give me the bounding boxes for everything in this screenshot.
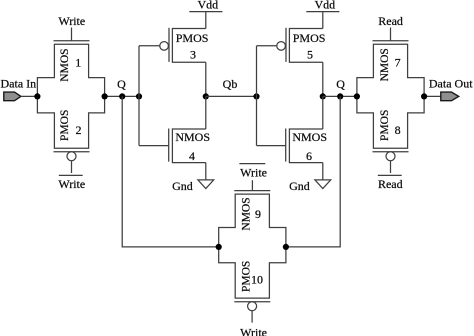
svg-text:Q: Q [117,77,126,91]
wire gate lead PMOS 10 [251,310,253,322]
svg-text:Write: Write [58,14,85,28]
junction dot node Q feedback tap [119,93,125,99]
wire NMOS 6 drain to node Q [322,96,324,129]
wire PMOS 3 source to Vdd [205,12,207,29]
svg-text:Read: Read [378,177,403,191]
junction dot read gate output [421,93,427,99]
transistor PMOS 10 gate bubble [248,302,257,311]
transistor NMOS 1 gate plate [54,40,90,42]
junction dot left gate output [102,93,108,99]
label Write-bar overline (feedback gate top) [239,163,265,165]
svg-text:4: 4 [189,149,195,163]
transistor PMOS 8 gate plate [373,151,409,153]
svg-text:Data Out: Data Out [429,77,473,91]
transistor PMOS 8 gate bubble [386,152,395,161]
svg-text:PMOS: PMOS [59,110,71,141]
wire gate lead PMOS 2 [71,161,73,174]
junction dot node Qb [203,93,209,99]
wire to PMOS 5 gate bubble [257,45,277,47]
transistor NMOS 6 gate line [285,129,287,162]
transistor PMOS 3 body [172,29,205,63]
svg-text:Vdd: Vdd [197,0,218,11]
svg-text:9: 9 [255,207,261,221]
power rail Vdd (inverter 1) [189,11,222,13]
transistor NMOS 9 gate plate [234,190,270,192]
transistor PMOS 2 gate plate [54,151,90,153]
wire gate lead NMOS 9 [251,180,253,190]
svg-text:Write: Write [240,326,267,336]
svg-text:PMOS: PMOS [176,31,209,45]
svg-text:7: 7 [395,56,401,70]
svg-text:6: 6 [306,149,312,163]
wire to NMOS 4 gate [139,145,169,147]
svg-text:Gnd: Gnd [289,179,310,193]
svg-text:NMOS: NMOS [292,130,327,144]
wire PMOS 5 source to Vdd [322,12,324,29]
svg-text:Q: Q [336,77,345,91]
svg-text:NMOS: NMOS [241,197,253,230]
wire node Q down to feedback gate right [286,96,340,247]
junction dot inverter 1 input [136,93,142,99]
svg-text:Read: Read [378,14,403,28]
transistor PMOS 10 gate plate [234,301,270,303]
ground symbol (inverter 2) [315,180,331,189]
transistor PMOS 3 gate bubble [160,42,169,51]
svg-text:PMOS: PMOS [293,31,326,45]
junction dot at Data In terminal [34,93,40,99]
junction dot feedback gate left [216,244,222,250]
power rail Vdd (inverter 2) [306,11,339,13]
wire read gate output to Data Out [424,95,441,97]
junction dot inverter 2 input [253,93,259,99]
transistor PMOS 5 body [289,29,322,63]
transmission gate body (NMOS 9 / PMOS 10) [219,194,286,298]
svg-text:NMOS: NMOS [59,48,71,81]
label Read-bar overline (right gate bottom) [378,174,402,176]
junction dot feedback gate right [283,244,289,250]
wire NMOS 6 source to ground [322,163,324,180]
svg-text:5: 5 [307,48,313,62]
transistor PMOS 2 gate bubble [67,152,76,161]
wire NMOS 4 source to ground [205,163,207,180]
transistor PMOS 5 gate line [285,28,287,62]
svg-text:1: 1 [75,56,81,70]
wire left gate output to node Q [105,95,139,97]
transistor NMOS 6 body [289,129,322,163]
wire node Q down to feedback gate [122,96,219,247]
wire PMOS 3 drain to node Qb [205,62,207,96]
wire to NMOS 6 gate [257,145,286,147]
svg-text:Qb: Qb [223,77,238,91]
junction dot read gate input [354,93,360,99]
svg-text:3: 3 [190,48,196,62]
wire gate lead PMOS 8 [390,161,392,174]
wire inverter 1 input vertical [138,46,140,146]
wire NMOS 4 drain to node Qb [205,96,207,129]
wire gate lead NMOS 1 [71,28,73,41]
svg-text:8: 8 [395,123,401,137]
transmission gate body (NMOS 1 / PMOS 2) [37,44,104,148]
junction dot node Q right feedback tap [337,93,343,99]
transmission gate body (NMOS 7 / PMOS 8) [357,44,424,148]
wire inverter 2 output to read gate [323,95,357,97]
svg-text:NMOS: NMOS [379,48,391,81]
wire PMOS 5 drain to node Q [322,62,324,96]
ground symbol (inverter 1) [198,180,214,189]
svg-text:Write: Write [240,165,267,179]
transistor PMOS 5 gate bubble [277,42,286,51]
junction dot inverter 2 output [320,93,326,99]
svg-text:NMOS: NMOS [175,130,210,144]
wire gate lead NMOS 7 [390,28,392,41]
svg-text:Data In: Data In [1,77,37,91]
svg-text:Gnd: Gnd [172,179,193,193]
terminal arrow Data In [4,92,21,101]
svg-text:2: 2 [76,123,82,137]
svg-text:10: 10 [251,272,263,286]
svg-text:PMOS: PMOS [379,110,391,141]
transistor NMOS 7 gate plate [373,40,409,42]
transistor NMOS 4 body [172,129,205,163]
wire node Qb to inverter 2 input [206,95,257,97]
svg-text:Vdd: Vdd [314,0,335,11]
transistor PMOS 3 gate line [168,28,170,62]
svg-text:Write: Write [58,177,85,191]
label Write-bar overline (left gate bottom) [59,174,83,176]
transistor NMOS 4 gate line [168,129,170,162]
wire inverter 2 input vertical [256,46,258,146]
wire to PMOS 3 gate bubble [139,45,160,47]
terminal arrow Data Out [441,92,459,101]
wire Data In to gate [21,95,38,97]
